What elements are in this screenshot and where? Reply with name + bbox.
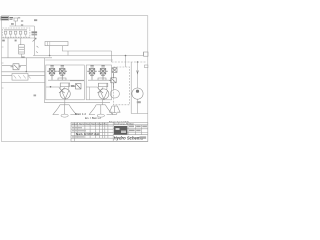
- sheet number text: [140, 136, 147, 138]
- wire: [86, 86, 97, 88]
- title block: [71, 122, 148, 141]
- wire: [130, 62, 132, 114]
- wire: [15, 21, 17, 26]
- wire: [49, 46, 51, 56]
- wire: [48, 79, 84, 81]
- wire suction header: [44, 101, 110, 103]
- pump unit 1 enclosure: [46, 65, 85, 100]
- valve V4: [19, 31, 22, 34]
- check valve CV2: [98, 88, 104, 94]
- solenoid valve Y4: [98, 66, 108, 80]
- label above valve V6: [22, 57, 25, 58]
- motor box M2: [98, 83, 107, 86]
- wire: [33, 26, 35, 38]
- pump P3: [132, 88, 143, 99]
- solenoid valve Y2: [57, 66, 67, 80]
- gauge G1: [110, 90, 119, 98]
- svg-text:Bearb. 12.03.97 Hydr.: Bearb. 12.03.97 Hydr.: [76, 133, 100, 136]
- logo stamp: [114, 126, 127, 135]
- right cells text: [129, 126, 134, 128]
- tick marks left border: [2, 47, 4, 88]
- rotor dot P3: [136, 90, 139, 93]
- suction bell SB2: [89, 105, 113, 117]
- wire: [33, 52, 144, 55]
- gauge block: [58, 78, 66, 80]
- title block row lines: [71, 126, 113, 138]
- gauge block 2: [98, 78, 106, 80]
- label HD: [71, 85, 75, 87]
- valve V3: [14, 31, 16, 34]
- wire: [64, 99, 66, 105]
- valve V7: [112, 68, 117, 73]
- svg-text:Datum Name Gepr. Norm Urspr. E: Datum Name Gepr. Norm Urspr. Ers.: [72, 123, 108, 126]
- wire: [10, 25, 35, 27]
- port box right edge: [144, 52, 149, 56]
- tick mark: [36, 46, 38, 53]
- junction: [50, 86, 52, 88]
- svg-text:Ers. f. Blatt 1-2: Ers. f. Blatt 1-2: [85, 117, 101, 120]
- wire: [2, 57, 53, 59]
- label P: [15, 40, 17, 42]
- label text T1: [18, 17, 20, 18]
- aux dashed box: [114, 67, 130, 105]
- wire: [25, 58, 27, 72]
- junction: [137, 61, 139, 63]
- small mark: [34, 95, 37, 97]
- component box B1: [14, 18, 18, 21]
- check valve CV1: [59, 88, 65, 94]
- label F: [2, 40, 5, 42]
- wire: [89, 87, 91, 100]
- valve V5: [24, 31, 27, 34]
- wire dashed pilot: [112, 61, 147, 63]
- pump unit 2 enclosure: [86, 65, 111, 100]
- wire: [46, 86, 60, 88]
- wire: [137, 99, 139, 113]
- svg-text:Blatt 1:2: Blatt 1:2: [75, 112, 86, 116]
- wire: [2, 75, 45, 77]
- label 4x DN25: [32, 31, 38, 33]
- label near border: [145, 65, 148, 68]
- title block right column lines: [71, 122, 148, 134]
- wire: [137, 62, 139, 88]
- suction bell SB1: [53, 105, 77, 117]
- manifold dashed box: [3, 28, 30, 37]
- wire: [45, 59, 113, 61]
- valve V8: [109, 73, 116, 89]
- junction: [26, 71, 28, 73]
- valve V1: [4, 31, 7, 34]
- wire: [125, 56, 127, 68]
- svg-text:Hydro Schema: Hydro Schema: [114, 136, 144, 141]
- cooler C1: [12, 74, 28, 81]
- pump P1: [60, 89, 70, 99]
- silencer S1: [45, 42, 68, 46]
- wire: [2, 82, 45, 84]
- junction: [125, 55, 127, 57]
- wire: [67, 51, 69, 56]
- title block column lines: [75, 122, 114, 141]
- wire: [62, 46, 111, 51]
- wire: [88, 79, 112, 81]
- label 10b: [21, 24, 23, 25]
- wire riser: [98, 83, 107, 89]
- filter F1 ladder: [19, 45, 25, 54]
- valve stubs: [6, 34, 26, 37]
- wire: [7, 38, 9, 58]
- wire: [20, 38, 22, 45]
- wire: [70, 80, 84, 82]
- label under pump P3: [137, 101, 141, 103]
- label text T0: [10, 17, 14, 18]
- wire: [2, 65, 26, 67]
- drawing frame: [2, 16, 148, 142]
- wire: [44, 58, 46, 103]
- label P1: [11, 23, 14, 25]
- motor box M1: [60, 83, 69, 86]
- valve V6: [11, 64, 22, 70]
- connector table K1: [1, 17, 9, 21]
- arrow on riser: [137, 71, 139, 74]
- label row above valves: [4, 29, 27, 30]
- svg-text:Zeichnungs-Nr. Blatt: Zeichnungs-Nr. Blatt: [114, 122, 134, 125]
- solenoid valve Y1: [47, 66, 57, 80]
- valve V2: [9, 31, 12, 34]
- arrow mark: [33, 38, 37, 41]
- label 10a: [21, 20, 23, 21]
- wire: [111, 51, 113, 62]
- wire: [131, 113, 148, 115]
- wire: [21, 54, 23, 58]
- wire: [34, 38, 36, 56]
- label 4x: [34, 19, 37, 21]
- wire: [101, 99, 103, 105]
- wire riser: [60, 83, 69, 89]
- relief valve RV1: [74, 84, 82, 90]
- suction bell SB3: [109, 106, 120, 115]
- wire main header: [2, 37, 37, 39]
- wire: [2, 71, 45, 73]
- junction: [49, 55, 51, 57]
- solenoid valve Y3: [87, 66, 97, 80]
- pump P2: [99, 89, 109, 99]
